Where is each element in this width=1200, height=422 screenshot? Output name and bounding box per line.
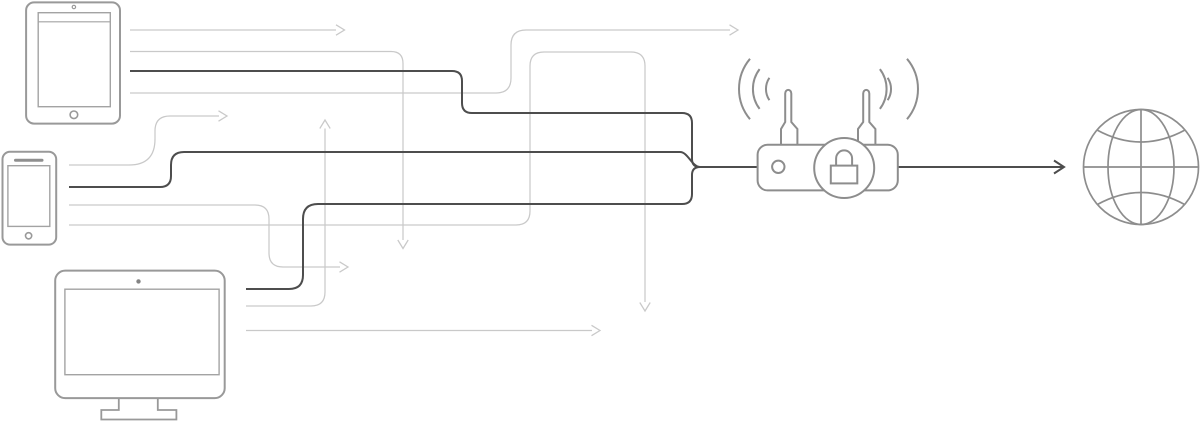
- monitor device: [55, 271, 225, 420]
- router body: [758, 145, 898, 191]
- wire tablet line4 to top right arrow: [130, 30, 730, 93]
- wire tablet line2 to down arrow: [130, 52, 403, 241]
- tablet device: [26, 2, 120, 123]
- globe internet: [1084, 110, 1199, 225]
- lock body: [831, 166, 858, 184]
- wire phone line3 to mid right arrow: [69, 205, 340, 267]
- router led: [772, 161, 784, 173]
- wire dark monitor to router: [246, 167, 757, 289]
- router antenna left: [781, 90, 797, 146]
- wire phone line4 staple loop to down arrow: [69, 52, 645, 302]
- wire router to globe arrow: [898, 166, 1063, 168]
- wire monitor line to up arrow: [246, 129, 325, 307]
- phone device: [3, 152, 57, 245]
- wire dark tablet to router: [130, 71, 757, 167]
- router antenna right: [858, 90, 875, 146]
- wire tablet line1 to right arrow: [130, 29, 336, 31]
- wire dark phone to router: [69, 152, 757, 187]
- router wifi waves right: [880, 59, 918, 119]
- lock badge circle: [814, 138, 874, 198]
- router wifi waves left: [739, 59, 769, 119]
- lock shackle: [836, 150, 852, 166]
- wire monitor long arrow: [246, 330, 592, 332]
- wire phone line1 to small right arrow: [69, 116, 219, 165]
